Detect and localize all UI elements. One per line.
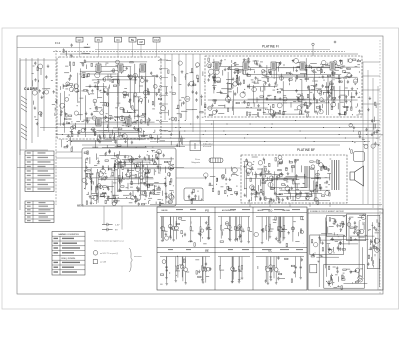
antenna coil L2 hatching	[21, 124, 27, 140]
wire decoder to BF 1	[176, 167, 241, 169]
terminal circle top right 2	[334, 41, 336, 43]
grid cell OC extra parts	[258, 256, 303, 283]
svg-text:FREQ. INTERM.: FREQ. INTERM.	[61, 258, 76, 260]
connector BF-grid x290	[289, 203, 291, 207]
output transformer T-BF	[332, 160, 339, 190]
svg-text:GAMMES COUVERTES: GAMMES COUVERTES	[58, 233, 79, 236]
grid cell GO extra parts	[254, 216, 304, 246]
bus wire y138	[100, 137, 380, 139]
bus wire y141.5	[150, 141, 370, 143]
indicator box	[190, 141, 201, 151]
right margin components upper	[367, 97, 383, 139]
bus wire y131	[160, 130, 380, 132]
sub box PSU 1	[327, 215, 347, 236]
FI right stub 1	[362, 61, 380, 63]
grid col line 1	[214, 207, 216, 290]
left long vertical wire	[19, 60, 21, 210]
decoder block outline	[82, 148, 176, 206]
svg-text:Prise: Prise	[195, 158, 201, 161]
PLATINE BF block outline	[241, 155, 347, 203]
vertical bus wire x200	[199, 54, 201, 144]
wire from box PO	[98, 42, 100, 57]
svg-text:PO: PO	[97, 39, 101, 42]
grid cell ANT2 circuit fragment	[218, 257, 250, 284]
bottom right block outline	[308, 209, 383, 290]
vertical wire FI-magneto	[213, 121, 215, 159]
small filter box	[184, 188, 203, 201]
svg-text:685C: 685C	[77, 204, 84, 208]
sub box PSU tall	[367, 215, 380, 268]
band selector box AM	[138, 40, 145, 45]
legend circle symbol	[93, 251, 98, 256]
grid cell BE circuit fragment	[160, 257, 210, 286]
IF transformer T4	[300, 62, 305, 70]
svg-text:BE: BE	[205, 248, 209, 252]
grid cell ANT extra parts	[220, 222, 243, 243]
driver transformer in BF	[305, 166, 309, 188]
connector BF-grid x330	[329, 203, 331, 207]
band selector box PO	[95, 37, 102, 42]
wire top left horizontal	[17, 47, 90, 49]
table 2 diode voltages	[25, 201, 54, 223]
right strip vertical x368	[367, 70, 369, 204]
svg-text:GO: GO	[78, 39, 82, 42]
FI right stub 2	[362, 75, 380, 77]
below tuner strip wires	[62, 135, 185, 148]
right strip components	[349, 123, 380, 153]
FI right stub 3	[362, 89, 380, 91]
PLATINE FI wires	[208, 58, 360, 115]
grid cell BE extra parts	[160, 256, 211, 284]
PSU bottom components	[326, 266, 364, 289]
PSU mid-left components	[311, 255, 323, 262]
right strip vertical x378	[377, 86, 379, 290]
antenna vertical wire 5	[43, 58, 45, 131]
antenna vertical wire 4	[37, 58, 39, 137]
right strip vertical x363	[362, 62, 364, 204]
IF transformer T5	[330, 62, 335, 70]
svg-text:Magneto: Magneto	[191, 161, 200, 164]
wire from box OC3	[156, 42, 158, 57]
svg-text:AM: AM	[139, 41, 143, 44]
top bus wire dashed	[53, 51, 345, 53]
grid mid line b	[157, 252, 307, 254]
grid mid line a	[157, 247, 307, 249]
legend brace	[129, 248, 133, 272]
IF transformer T1	[214, 62, 219, 70]
grid header text marks	[168, 209, 303, 250]
vertical bus wire x172	[171, 54, 173, 132]
svg-text:Indicateur: Indicateur	[203, 143, 213, 146]
decoder block components	[82, 149, 174, 206]
terminal circle top right	[312, 43, 314, 45]
grid cell OC circuit fragment	[256, 257, 304, 285]
svg-text:Tensions mesurees par rapport: Tensions mesurees par rapport au (-)	[94, 240, 124, 243]
wire into decoder left 2	[56, 157, 82, 159]
antenna input components	[32, 62, 58, 126]
tuner block components	[60, 59, 162, 139]
wire from box BE	[132, 42, 134, 57]
trimmers above tuner block	[62, 44, 90, 58]
PSU2 components	[347, 215, 368, 241]
grid col line 2	[252, 207, 254, 290]
table 1 transistor voltages	[25, 151, 54, 192]
frame inner dashed right edge	[379, 40, 381, 294]
wire magneto down	[213, 163, 215, 189]
svg-text:BE: BE	[131, 39, 135, 42]
sub box PSU bottom	[324, 264, 365, 288]
bottom grid outer	[157, 207, 307, 290]
prise magneto connector	[209, 158, 223, 163]
decoder block wires	[85, 151, 174, 204]
svg-text:au VOC TC ou pont (/): au VOC TC ou pont (/)	[100, 252, 118, 255]
tuner block wires	[61, 62, 160, 137]
PLATINE BF wires	[245, 162, 330, 201]
wire decoder to pile 1	[103, 206, 105, 225]
band selector box BE	[129, 37, 136, 42]
PSU block wires	[316, 218, 379, 288]
svg-text:PLATINE FI: PLATINE FI	[262, 45, 279, 49]
IF transformer T3	[271, 62, 276, 70]
sub box PSU 3	[310, 235, 344, 255]
svg-text:FI.2: FI.2	[55, 41, 60, 45]
PSU1 components	[328, 217, 345, 236]
grid header line	[157, 212, 307, 214]
band selector box GO	[76, 37, 83, 42]
grid cell GO circuit fragment	[256, 217, 304, 244]
pile symbol 2	[102, 228, 113, 231]
vertical bus wire x186	[185, 54, 187, 120]
antenna coil L1 hatching	[21, 96, 27, 112]
connector BF-grid x270	[269, 203, 271, 207]
tuner coil transformer L6	[96, 118, 101, 126]
wire from box GO	[79, 42, 81, 57]
schematic border frame	[17, 36, 383, 294]
connector BF-grid x310	[309, 203, 311, 207]
wire from box OC	[117, 42, 119, 57]
grid cell PO circuit fragment	[160, 217, 212, 243]
antenna vertical wire 3	[31, 58, 33, 143]
tuner terminal row	[160, 59, 162, 61]
vertical bus wire x165	[164, 54, 166, 120]
bus wire y120.5	[205, 120, 380, 122]
filter box components	[188, 189, 204, 203]
wire drop from terminal	[312, 46, 314, 57]
grid cell ANT circuit fragment	[218, 217, 252, 244]
PLATINE FI block outline	[205, 56, 362, 117]
PLATINE FI components	[207, 57, 361, 118]
svg-text:d'accord: d'accord	[203, 145, 212, 148]
legend table GAMMES COUVERTES	[52, 232, 85, 276]
PLATINE BF components	[243, 155, 331, 204]
vertical bus wire x193	[192, 54, 194, 132]
vertical bus wire x179	[178, 54, 180, 144]
svg-text:OC3: OC3	[154, 39, 160, 42]
svg-text:OC: OC	[116, 39, 120, 42]
junction dots on buses	[62, 120, 368, 142]
svg-text:SCHEMA DU CIRCUIT ALIMENT. SEC: SCHEMA DU CIRCUIT ALIMENT. SECTEUR	[310, 210, 345, 213]
bus wire y124	[56, 123, 380, 125]
antenna vertical wire 1	[19, 58, 21, 155]
wire decoder to pile 2	[121, 206, 123, 230]
band selector box OC3	[153, 37, 160, 42]
svg-text:CADRE: CADRE	[161, 209, 168, 212]
wire from box AM	[140, 44, 142, 57]
FI right stub 4	[362, 103, 380, 105]
bus wire y145	[82, 144, 340, 146]
bus wire y134.5	[56, 134, 380, 136]
sub box PSU small	[310, 264, 317, 272]
tuner coil transformer L4	[118, 64, 123, 72]
left dashed vertical wire	[55, 50, 57, 205]
svg-text:1,5V: 1,5V	[115, 225, 120, 227]
tuner coil transformer L7	[126, 118, 131, 126]
top bus wire 3	[95, 49, 330, 51]
PSU3 components	[311, 236, 345, 256]
small box right of BF	[354, 152, 365, 162]
tuner block BLOC AM outline	[57, 57, 161, 139]
components between tuner and FI	[160, 60, 206, 121]
antenna vertical wire 2	[25, 58, 27, 149]
svg-text:au CdB: au CdB	[100, 262, 107, 264]
right strip vertical x373	[372, 78, 374, 208]
below tuner strip components	[64, 127, 180, 151]
tuner coil transformer L3	[96, 64, 101, 72]
wire above grid	[150, 204, 382, 206]
connector BF-grid x250	[249, 203, 251, 207]
components left of BF	[226, 167, 239, 197]
band selector box OC	[115, 37, 122, 42]
wire into decoder left 1	[56, 151, 82, 153]
grid cell PO extra parts	[165, 218, 210, 247]
svg-text:mesureur: mesureur	[134, 256, 142, 258]
sub box PSU 2	[347, 214, 366, 241]
bus wire y127.5	[40, 127, 380, 129]
wire decoder to BF 2	[176, 177, 207, 179]
bus wire y167	[17, 167, 184, 169]
top bus wire 2	[60, 53, 358, 55]
PSU tall components	[367, 219, 379, 267]
tuner coil transformer L5	[140, 64, 145, 72]
wire antenna top link	[20, 59, 56, 61]
IF transformer T2	[243, 62, 248, 70]
legend square symbol	[93, 260, 97, 264]
pile symbol 1	[102, 223, 113, 226]
svg-text:PLATINE BF: PLATINE BF	[297, 148, 315, 152]
components between blocks	[204, 173, 232, 194]
speaker LS1	[350, 166, 364, 186]
wire antenna bottom link	[20, 149, 48, 151]
